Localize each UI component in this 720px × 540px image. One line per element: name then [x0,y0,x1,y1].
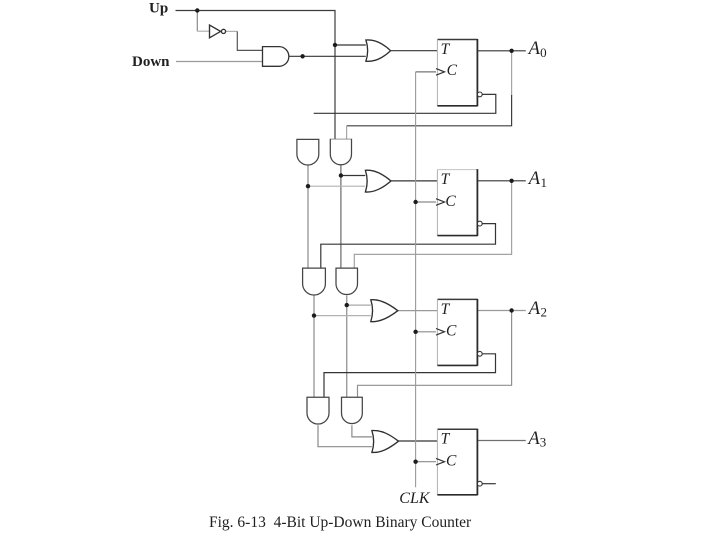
svg-text:C: C [445,193,456,210]
svg-text:1: 1 [541,175,548,190]
svg-text:T: T [441,41,451,58]
svg-text:A: A [527,39,541,59]
svg-text:Fig. 6-13 4-Bit Up-Down Binar: Fig. 6-13 4-Bit Up-Down Binary Counter [209,514,472,531]
svg-text:Down: Down [132,54,170,70]
svg-text:CLK: CLK [399,490,431,507]
svg-text:3: 3 [540,435,547,450]
svg-text:C: C [446,323,457,340]
svg-text:A: A [527,169,541,189]
svg-text:A: A [526,429,540,449]
svg-text:T: T [441,431,451,448]
svg-text:C: C [446,452,457,469]
svg-text:A: A [527,299,541,319]
svg-text:C: C [447,62,458,79]
svg-text:2: 2 [541,305,548,320]
svg-text:0: 0 [540,45,547,60]
svg-text:Up: Up [149,1,168,17]
svg-text:T: T [441,171,451,188]
svg-text:T: T [441,301,451,318]
